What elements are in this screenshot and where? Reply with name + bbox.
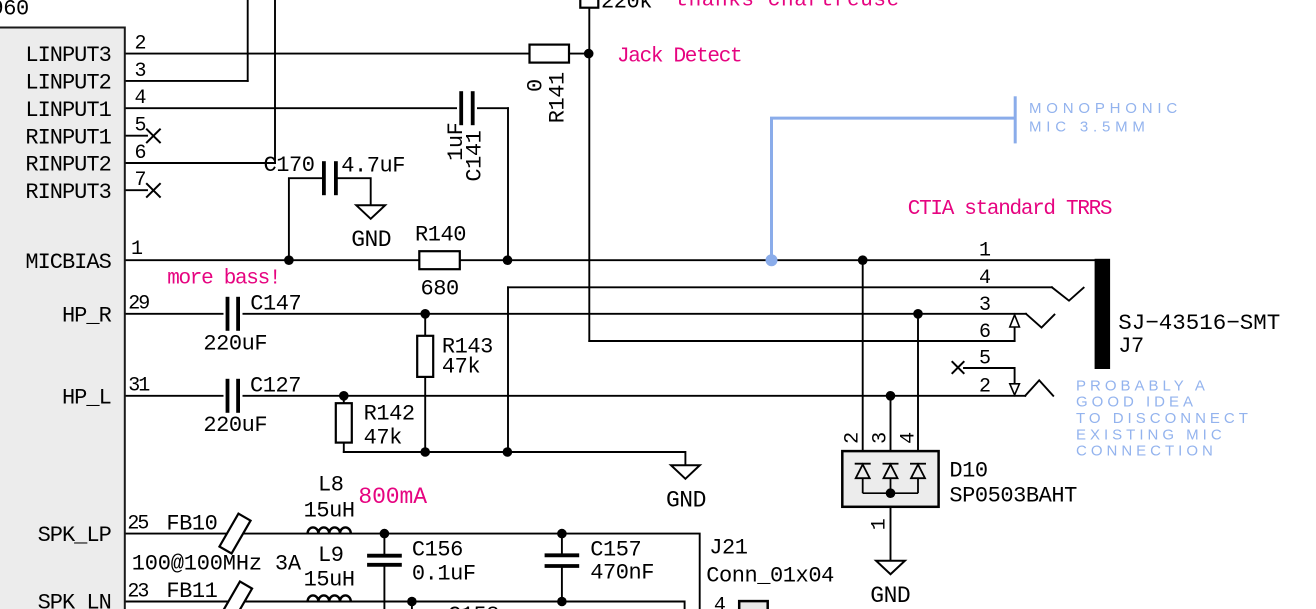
capacitor C147 plates xyxy=(224,297,243,331)
svg-text:PROBABLY A: PROBABLY A xyxy=(1076,377,1209,394)
capacitor C156 plates xyxy=(367,556,402,565)
svg-text:47k: 47k xyxy=(364,426,403,451)
svg-text:0.1uF: 0.1uF xyxy=(412,562,476,587)
svg-text:C156: C156 xyxy=(412,537,463,562)
svg-text:LINPUT1: LINPUT1 xyxy=(25,98,111,123)
junction MICBIAS/D10 xyxy=(858,255,868,265)
svg-text:MICBIAS: MICBIAS xyxy=(25,250,111,275)
svg-text:HP_R: HP_R xyxy=(62,303,112,328)
diode array D10 box xyxy=(842,451,938,507)
capacitor C127 plates xyxy=(224,379,243,413)
junction SPK_LP/C157 xyxy=(557,529,567,539)
svg-text:5: 5 xyxy=(979,348,990,371)
svg-text:220k: 220k xyxy=(601,0,652,14)
ferrite bead FB10 xyxy=(219,514,250,554)
jack J7 NC arrow up (pin6 to pin3) xyxy=(1010,315,1020,327)
svg-text:4.7uF: 4.7uF xyxy=(341,154,405,179)
capacitor C170 plates xyxy=(324,161,336,195)
svg-text:FB10: FB10 xyxy=(166,511,217,536)
wire MICBIAS to D10 pin2 xyxy=(862,260,864,464)
no-connect X RINPUT1 xyxy=(146,129,160,143)
svg-text:MIC 3.5MM: MIC 3.5MM xyxy=(1029,119,1150,136)
svg-text:RINPUT3: RINPUT3 xyxy=(25,180,110,205)
svg-text:SJ−43516−SMT: SJ−43516−SMT xyxy=(1118,310,1280,336)
svg-text:GOOD IDEA: GOOD IDEA xyxy=(1076,394,1197,411)
junction D10 bus xyxy=(886,488,896,498)
resistor R142 body xyxy=(336,403,352,442)
inductor L8 xyxy=(308,527,351,533)
blue junction dot on MICBIAS xyxy=(766,254,778,266)
svg-text:C170: C170 xyxy=(264,153,315,178)
capacitor C141 plates xyxy=(457,91,477,125)
svg-text:R140: R140 xyxy=(415,223,466,248)
svg-text:15uH: 15uH xyxy=(304,568,355,593)
svg-text:EXISTING MIC: EXISTING MIC xyxy=(1076,426,1226,443)
wire R143 top lead xyxy=(424,314,426,336)
ground symbol on rail xyxy=(671,465,700,479)
svg-text:Conn_01x04: Conn_01x04 xyxy=(706,564,834,589)
svg-text:GND: GND xyxy=(351,227,391,253)
resistor R143 body xyxy=(417,336,433,377)
svg-text:R142: R142 xyxy=(364,402,415,427)
svg-text:C158: C158 xyxy=(448,603,499,609)
svg-text:15uH: 15uH xyxy=(304,498,355,523)
connector J21 pad 4 xyxy=(739,601,768,609)
svg-text:6: 6 xyxy=(979,321,990,344)
svg-text:L8: L8 xyxy=(318,472,344,497)
wire HP_R to D10 pin4 xyxy=(917,314,919,464)
svg-text:D10: D10 xyxy=(949,458,987,483)
wire C141 down to MICBIAS xyxy=(507,108,509,260)
svg-text:SPK_LP: SPK_LP xyxy=(38,523,112,548)
diode D10-a xyxy=(855,464,871,494)
svg-text:FB11: FB11 xyxy=(166,579,217,604)
junction C170/MICBIAS xyxy=(284,255,294,265)
wire LINPUT1 pin4 through C141 xyxy=(125,107,508,109)
svg-text:HP_L: HP_L xyxy=(62,385,111,410)
ground symbol near C170 xyxy=(356,205,385,219)
svg-text:7: 7 xyxy=(135,169,146,192)
svg-text:100@100MHz 3A: 100@100MHz 3A xyxy=(132,552,302,577)
junction rail/R143 xyxy=(420,447,430,457)
svg-text:4: 4 xyxy=(135,87,146,110)
svg-text:thanks chartreuse: thanks chartreuse xyxy=(675,0,899,13)
svg-text:220uF: 220uF xyxy=(203,332,267,357)
wire SPK_LN pin23 xyxy=(125,602,685,609)
svg-text:L9: L9 xyxy=(318,543,344,568)
svg-text:GND: GND xyxy=(666,488,706,514)
svg-text:47k: 47k xyxy=(442,355,481,380)
jack J7 NC arrow down (pin5 to pin2) xyxy=(1010,384,1020,395)
wire R143 bottom lead xyxy=(424,377,426,452)
svg-text:800mA: 800mA xyxy=(358,484,427,510)
wire HP_L pin31 xyxy=(125,395,1025,397)
svg-text:J7: J7 xyxy=(1118,334,1144,359)
svg-text:C127: C127 xyxy=(250,373,301,398)
svg-text:3: 3 xyxy=(979,294,990,317)
junction SPK_LP/C156 xyxy=(380,529,390,539)
svg-text:more bass!: more bass! xyxy=(167,268,280,291)
svg-text:31: 31 xyxy=(128,374,150,397)
wire jack pin5 xyxy=(964,368,1015,384)
wire stub below SPK_LN junction xyxy=(411,602,413,609)
wire RINPUT3 stub xyxy=(125,189,147,191)
jack J7 body bar xyxy=(1095,259,1111,369)
junction rail/pin4 xyxy=(503,447,513,457)
svg-text:3: 3 xyxy=(869,433,892,444)
wire C156 top lead xyxy=(383,534,385,554)
svg-text:23: 23 xyxy=(127,581,148,604)
junction HP_R/R143 xyxy=(420,309,430,319)
svg-text:2: 2 xyxy=(135,33,146,56)
svg-text:5: 5 xyxy=(135,115,146,138)
ground symbol below D10 xyxy=(876,561,905,575)
svg-text:CTIA standard TRRS: CTIA standard TRRS xyxy=(908,198,1112,221)
svg-text:LINPUT3: LINPUT3 xyxy=(25,43,110,68)
svg-text:29: 29 xyxy=(128,292,149,315)
wire LINPUT3 pin2 to R141 xyxy=(125,53,589,55)
svg-text:470nF: 470nF xyxy=(590,560,654,585)
wire jack pin2 chevron xyxy=(1025,380,1053,396)
svg-text:4: 4 xyxy=(979,267,990,290)
resistor R141 body xyxy=(530,45,570,63)
wire 220k vertical / jack detect net xyxy=(588,8,590,341)
svg-text:GND: GND xyxy=(870,583,910,609)
wire RINPUT2 pin6 xyxy=(125,162,275,164)
svg-text:MONOPHONIC: MONOPHONIC xyxy=(1029,100,1182,117)
svg-text:LINPUT2: LINPUT2 xyxy=(25,71,110,96)
wire C170 right lead to GND xyxy=(338,178,371,205)
svg-text:TO DISCONNECT: TO DISCONNECT xyxy=(1076,410,1252,427)
wire R142 leads xyxy=(343,396,345,403)
junction HP_R/D10 xyxy=(913,309,923,319)
junction HP_L/R142 xyxy=(339,391,349,401)
svg-text:C157: C157 xyxy=(590,538,641,563)
svg-text:3: 3 xyxy=(135,60,146,83)
junction R141/220k xyxy=(584,49,594,59)
junction SPK_LN stub xyxy=(407,597,417,607)
wire C157 top lead xyxy=(561,534,563,554)
wire HP_L to D10 pin3 xyxy=(890,396,892,464)
svg-text:C141: C141 xyxy=(463,130,488,181)
svg-text:RINPUT1: RINPUT1 xyxy=(25,125,111,150)
svg-text:J21: J21 xyxy=(709,536,748,561)
wire jack pin4 horizontal xyxy=(508,286,1052,288)
junction R140/C141 xyxy=(503,255,513,265)
svg-text:WM8960: WM8960 xyxy=(0,0,29,22)
wire LINPUT2 vertical to top xyxy=(247,0,249,81)
svg-text:6: 6 xyxy=(135,142,146,165)
svg-text:25: 25 xyxy=(127,513,148,536)
wire jack pin4 vertical to rail xyxy=(507,287,509,452)
wire D10 pin1 to GND xyxy=(890,493,892,561)
wire jack pin6 horizontal xyxy=(589,340,1014,342)
resistor R140 body xyxy=(419,251,460,269)
capacitor C157 plates xyxy=(545,555,580,566)
svg-text:C147: C147 xyxy=(250,291,301,316)
wire RINPUT2 vertical to top xyxy=(274,0,276,163)
svg-text:2: 2 xyxy=(842,433,865,444)
wire LINPUT2 pin3 xyxy=(125,80,248,82)
wire jack pin4 chevron xyxy=(1052,287,1084,300)
diode D10-b xyxy=(883,464,899,494)
wire D10 internal bus xyxy=(863,492,918,494)
svg-text:4: 4 xyxy=(714,595,725,609)
svg-text:220uF: 220uF xyxy=(203,413,267,438)
junction SPK_LN/C157 xyxy=(557,597,567,607)
inductor L9 xyxy=(308,595,351,601)
svg-text:SP0503BAHT: SP0503BAHT xyxy=(949,483,1077,508)
blue monophonic mic wire xyxy=(772,96,1016,260)
wire jack switch arrow line xyxy=(1014,327,1016,341)
svg-text:SPK_LN: SPK_LN xyxy=(38,591,111,609)
diode D10-c xyxy=(910,464,926,494)
svg-text:CONNECTION: CONNECTION xyxy=(1076,443,1217,460)
wire MICBIAS main xyxy=(125,259,1095,261)
wire ground rail xyxy=(344,452,686,465)
svg-text:Jack Detect: Jack Detect xyxy=(617,46,741,69)
svg-text:RINPUT2: RINPUT2 xyxy=(25,153,110,178)
wire C156 bottom lead crossing SPK_LN xyxy=(383,567,385,609)
svg-text:680: 680 xyxy=(421,277,459,302)
wire RINPUT1 stub xyxy=(125,135,147,137)
wire HP_R pin29 xyxy=(125,313,1026,315)
svg-text:4: 4 xyxy=(897,433,920,444)
svg-text:R141: R141 xyxy=(546,72,571,123)
wire SPK_LP pin25 xyxy=(125,534,700,609)
no-connect X RINPUT3 xyxy=(146,183,160,197)
IC U1 WM8960 body xyxy=(0,28,125,609)
no-connect X jack pin5 xyxy=(952,361,965,374)
wire jack pin3 chevron xyxy=(1026,314,1054,328)
ferrite bead FB11 xyxy=(221,582,252,609)
resistor R220k body (cut at top) xyxy=(580,0,598,8)
junction HP_L/D10 xyxy=(886,391,896,401)
svg-text:2: 2 xyxy=(979,376,990,399)
wire C157 bottom lead xyxy=(561,568,563,602)
wire C170 left lead xyxy=(289,178,322,260)
